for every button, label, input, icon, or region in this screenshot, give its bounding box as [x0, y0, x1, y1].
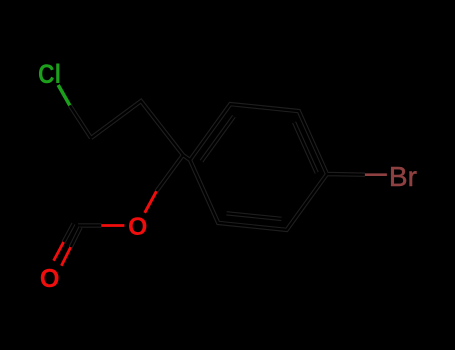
bond O(ester)-C(carbonyl) red half [101, 224, 124, 227]
bond C-Br dark red half [365, 173, 387, 176]
carbon skeleton black core pass [64, 101, 365, 247]
svg-text:O: O [40, 265, 60, 293]
carbon skeleton: chain C1-C2-V1, V1-ipso wire, benzene ring with aromatic inner lines, black halves of C-Cl, C-Br, C-O and C=O bonds (antialias edge pass) [64, 101, 365, 247]
double bond C=O red halves [54, 242, 71, 266]
svg-text:O: O [128, 213, 147, 241]
svg-text:Br: Br [389, 161, 417, 192]
bond O(ester)-V1 red half [145, 191, 157, 213]
bond Cl-C green half [58, 85, 70, 105]
svg-text:Cl: Cl [38, 59, 61, 89]
